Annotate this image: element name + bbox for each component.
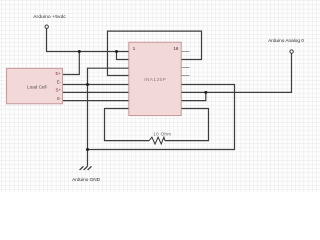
wire S+ load cell to IC pin6	[63, 91, 129, 93]
junction rail / pin2 jog	[115, 50, 118, 53]
load cell LC1 body	[7, 68, 63, 104]
wire resistor right up to IC pin9	[165, 109, 209, 141]
wire +5v drop from terminal to rail	[46, 29, 48, 52]
svg-text:Load Cell: Load Cell	[27, 85, 46, 90]
svg-text:Arduino GND: Arduino GND	[72, 177, 100, 182]
wire IC pin8 down-around to resistor left	[105, 109, 150, 141]
wire ground rail to IC pin12	[88, 85, 235, 150]
wire IC pin11 to Arduino Analog 0 terminal	[181, 53, 292, 92]
svg-text:10 Ohm: 10 Ohm	[153, 132, 171, 137]
unconnected pin 16 stub	[181, 51, 190, 53]
resistor R1 10 Ohm	[149, 137, 165, 144]
wire E+ branch from rail to load cell E+	[63, 52, 80, 75]
svg-text:S+: S+	[56, 88, 62, 93]
svg-text:E+: E+	[56, 71, 62, 76]
wire jog IC pin10 to pin11 net	[181, 92, 206, 100]
svg-text:Arduino Analog 0: Arduino Analog 0	[268, 38, 304, 43]
unconnected pin 13 stub	[181, 75, 190, 77]
junction ground rail / ground column	[86, 148, 89, 151]
svg-text:S-: S-	[57, 96, 62, 101]
wire E- load cell to IC pin5	[63, 84, 129, 86]
unconnected pin 14 stub	[181, 67, 190, 69]
wire ground column vertical	[87, 68, 89, 167]
junction pin11 wire / pin10 jog	[204, 91, 207, 94]
svg-text:INA125P: INA125P	[144, 77, 166, 83]
wire jog rail to IC pin2	[117, 52, 130, 60]
junction ground column / E-	[86, 83, 89, 86]
wire +5v rail to IC pin1	[46, 51, 129, 53]
op-amp U1 INA125P body	[129, 42, 181, 115]
wire loop IC pin4 over top to IC pin15	[108, 31, 202, 75]
wire S- load cell to IC pin7	[63, 100, 129, 102]
ground symbol	[80, 166, 92, 170]
svg-text:Arduino +5vdc: Arduino +5vdc	[33, 14, 66, 19]
svg-text:16: 16	[173, 46, 179, 51]
junction rail / E+ branch	[78, 50, 81, 53]
svg-text:E-: E-	[57, 80, 62, 85]
node Arduino +5vdc terminal	[45, 25, 48, 28]
node Arduino Analog 0 terminal	[290, 50, 293, 53]
wire IC pin3 to ground column	[88, 67, 130, 69]
